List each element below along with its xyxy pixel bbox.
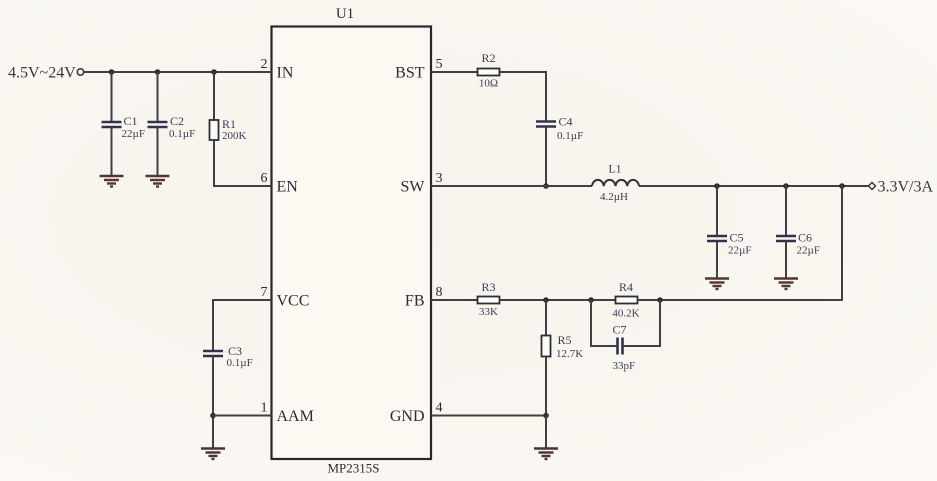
svg-text:200K: 200K bbox=[222, 130, 247, 142]
svg-text:C7: C7 bbox=[613, 323, 627, 337]
capacitor C7 bbox=[613, 323, 636, 373]
wire R1 top bbox=[213, 72, 215, 120]
wire C2 top bbox=[157, 72, 159, 122]
svg-text:AAM: AAM bbox=[277, 408, 314, 425]
svg-text:MP2315S: MP2315S bbox=[327, 461, 379, 476]
wire R2 to C4 bbox=[500, 72, 547, 122]
ground under C3 bbox=[201, 449, 225, 460]
svg-text:22µF: 22µF bbox=[797, 245, 820, 257]
svg-text:2: 2 bbox=[261, 57, 268, 72]
wire C5 bottom bbox=[716, 241, 718, 279]
ground under C6 bbox=[774, 279, 798, 290]
wire C5 top bbox=[716, 186, 718, 236]
svg-text:10Ω: 10Ω bbox=[479, 78, 498, 90]
svg-text:22µF: 22µF bbox=[122, 128, 145, 140]
wire C4 to SW line bbox=[545, 127, 547, 187]
wire C1 top bbox=[111, 72, 113, 122]
svg-text:GND: GND bbox=[390, 408, 425, 425]
wire L1 to output bbox=[639, 185, 869, 187]
capacitor C2 bbox=[148, 114, 196, 140]
wire R3 to R4 bbox=[500, 299, 616, 301]
svg-text:33pF: 33pF bbox=[613, 360, 636, 372]
capacitor C3 bbox=[203, 344, 253, 369]
junction at C6 bbox=[783, 183, 789, 189]
wire AAM line bbox=[213, 415, 272, 417]
junction GND/R5 bbox=[543, 413, 549, 419]
capacitor C6 bbox=[776, 231, 820, 257]
svg-text:1: 1 bbox=[261, 401, 268, 416]
input terminal bbox=[77, 69, 83, 75]
svg-text:4.2µH: 4.2µH bbox=[600, 191, 628, 203]
svg-text:BST: BST bbox=[395, 65, 425, 82]
wire C2 bottom bbox=[157, 127, 159, 176]
wire R1 bottom to EN bbox=[214, 140, 272, 186]
svg-text:R1: R1 bbox=[222, 117, 236, 131]
svg-text:4: 4 bbox=[436, 401, 443, 416]
svg-text:VCC: VCC bbox=[277, 293, 310, 310]
svg-text:C6: C6 bbox=[798, 231, 812, 245]
junction C7 left bbox=[588, 297, 594, 303]
pin 8 label FB bbox=[405, 285, 443, 310]
junction at R1 bbox=[211, 69, 217, 75]
wire C7 loop right bbox=[623, 300, 661, 346]
svg-text:R5: R5 bbox=[558, 333, 572, 347]
junction at C1 bbox=[109, 69, 115, 75]
pin 7 label VCC bbox=[261, 285, 310, 310]
wire GND pin line bbox=[431, 415, 546, 417]
svg-text:R2: R2 bbox=[481, 51, 495, 65]
inductor L1 bbox=[592, 162, 639, 204]
svg-text:3.3V/3A: 3.3V/3A bbox=[878, 179, 934, 196]
capacitor C4 bbox=[536, 115, 583, 143]
resistor R1 bbox=[210, 117, 247, 142]
op-amp U1 (IC body MP2315S) bbox=[272, 6, 432, 476]
svg-text:40.2K: 40.2K bbox=[612, 308, 639, 320]
wire feedback tap down and left bbox=[660, 186, 842, 300]
output terminal bbox=[869, 183, 876, 190]
ground under C5 bbox=[705, 279, 729, 290]
svg-text:C2: C2 bbox=[170, 114, 184, 128]
wire SW to L1 bbox=[431, 185, 592, 187]
svg-text:0.1µF: 0.1µF bbox=[169, 128, 195, 140]
svg-text:6: 6 bbox=[261, 171, 268, 186]
wire R5 bottom bbox=[545, 357, 547, 416]
svg-text:22µF: 22µF bbox=[728, 245, 751, 257]
svg-text:C4: C4 bbox=[559, 115, 573, 129]
svg-text:C1: C1 bbox=[124, 114, 138, 128]
wire R5 top bbox=[545, 300, 547, 336]
junction at AAM bbox=[210, 413, 216, 419]
junction at C5 bbox=[714, 183, 720, 189]
wire C6 bottom bbox=[785, 241, 787, 279]
capacitor C5 bbox=[707, 231, 751, 257]
svg-text:IN: IN bbox=[277, 65, 294, 82]
junction R5/FB bbox=[543, 297, 549, 303]
wire BST to R2 bbox=[431, 71, 478, 73]
wire C7 loop left bbox=[591, 300, 617, 346]
svg-text:R4: R4 bbox=[619, 280, 633, 294]
svg-text:C3: C3 bbox=[228, 344, 242, 358]
svg-text:0.1µF: 0.1µF bbox=[557, 130, 583, 142]
wire FB to R3 bbox=[431, 299, 478, 301]
svg-text:5: 5 bbox=[436, 57, 443, 72]
pin 3 label SW bbox=[401, 171, 443, 196]
resistor R2 bbox=[478, 51, 500, 90]
pin 1 label AAM bbox=[261, 401, 314, 426]
resistor R5 bbox=[542, 333, 584, 360]
svg-text:L1: L1 bbox=[608, 162, 621, 176]
svg-text:SW: SW bbox=[401, 179, 426, 196]
ground under C1 bbox=[100, 176, 124, 187]
junction C4/SW bbox=[543, 183, 549, 189]
pin 6 label EN bbox=[261, 171, 299, 196]
wire to ground bbox=[545, 416, 547, 449]
svg-text:U1: U1 bbox=[336, 6, 354, 22]
wire VCC to C3 bbox=[213, 300, 272, 351]
svg-text:7: 7 bbox=[261, 285, 268, 300]
wire C3 bottom bbox=[212, 356, 214, 449]
svg-text:FB: FB bbox=[405, 293, 425, 310]
svg-text:R3: R3 bbox=[481, 280, 495, 294]
ground under C2 bbox=[146, 176, 170, 187]
svg-text:4.5V~24V: 4.5V~24V bbox=[8, 65, 76, 82]
svg-text:EN: EN bbox=[277, 179, 299, 196]
svg-text:33K: 33K bbox=[479, 306, 498, 318]
wire C1 bottom bbox=[111, 127, 113, 176]
pin 2 label IN bbox=[261, 57, 294, 82]
capacitor C1 bbox=[102, 114, 145, 140]
wire input line bbox=[84, 71, 272, 73]
junction at FB tap bbox=[839, 183, 845, 189]
pin 4 label GND bbox=[390, 401, 443, 426]
junction C7 right bbox=[657, 297, 663, 303]
svg-text:8: 8 bbox=[436, 285, 443, 300]
resistor R4 bbox=[612, 280, 639, 320]
svg-text:3: 3 bbox=[436, 171, 443, 186]
svg-text:0.1µF: 0.1µF bbox=[227, 357, 253, 369]
resistor R3 bbox=[478, 280, 500, 318]
junction at C2 bbox=[155, 69, 161, 75]
wire R4 right bbox=[638, 299, 661, 301]
pin 5 label BST bbox=[395, 57, 442, 82]
svg-text:12.7K: 12.7K bbox=[556, 348, 583, 360]
ground under GND pin bbox=[534, 449, 558, 460]
wire C6 top bbox=[785, 186, 787, 236]
svg-text:C5: C5 bbox=[730, 231, 744, 245]
